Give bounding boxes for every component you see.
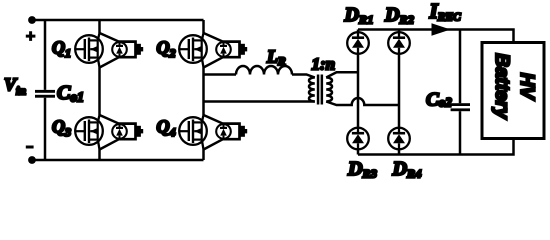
capacitor Co2: [451, 103, 470, 106]
svg-text:Q1: Q1: [52, 37, 71, 60]
diode DR3: [347, 128, 369, 150]
wire: Co2 branch bottom: [459, 111, 462, 154]
current arrow IREC: [432, 23, 451, 35]
wire: left bridge leg middle: [98, 68, 101, 116]
wire: bridge node to LR: [204, 73, 237, 76]
wire: right bridge leg upper: [202, 20, 205, 33]
wire: Co1 branch bottom: [44, 98, 47, 160]
svg-text:HV: HV: [516, 73, 537, 101]
diode DR1: [347, 32, 369, 54]
transistor Q2: [179, 33, 247, 68]
transistor Q3: [75, 115, 143, 150]
transistor Q1: [75, 33, 143, 68]
svg-text:Co1: Co1: [57, 82, 84, 105]
svg-text:Q4: Q4: [157, 117, 176, 140]
label +: [26, 31, 36, 41]
wire: Co2 branch top: [459, 30, 462, 104]
svg-text:DR4: DR4: [392, 158, 422, 181]
capacitor Co1: [35, 90, 55, 93]
inductor LR: [236, 66, 292, 75]
label HV Battery: [491, 53, 537, 120]
wire: secondary bottom to rectifier right leg with hop: [326, 98, 399, 105]
node: input + terminal: [28, 16, 36, 24]
svg-text:IREC: IREC: [429, 0, 462, 24]
node: input - terminal: [28, 156, 36, 164]
svg-text:Q2: Q2: [157, 37, 176, 60]
battery box: [482, 43, 544, 139]
wire: bottom input rail: [32, 159, 204, 162]
diode DR4: [388, 128, 410, 150]
svg-text:Battery: Battery: [491, 53, 512, 120]
svg-text:Q3: Q3: [52, 117, 71, 140]
svg-text:DR1: DR1: [344, 4, 374, 27]
svg-text:1:n: 1:n: [312, 55, 336, 74]
transformer T1 primary winding: [309, 78, 315, 102]
wire: right bridge leg lower: [202, 150, 205, 161]
wire: bridge lower node to primary bottom: [204, 100, 315, 103]
transistor Q4: [179, 115, 247, 150]
wire: rectifier top rail to battery: [358, 30, 514, 43]
wire: left bridge leg lower: [98, 150, 101, 161]
wire: LR to transformer primary: [292, 75, 315, 78]
svg-text:DR3: DR3: [347, 158, 377, 181]
wire: secondary top to rectifier left leg: [326, 72, 358, 77]
svg-text:DR2: DR2: [384, 4, 414, 27]
svg-text:Vin: Vin: [4, 75, 26, 98]
wire: rectifier right leg: [398, 30, 401, 155]
wire: rectifier left leg: [357, 30, 360, 155]
svg-text:Co2: Co2: [426, 90, 452, 111]
label -: [26, 146, 34, 149]
wire: left bridge leg upper: [98, 20, 101, 33]
diode DR2: [388, 32, 410, 54]
wire: right bridge leg middle: [202, 68, 205, 116]
wire: Co1 branch top: [44, 20, 47, 90]
wire: top input rail: [32, 19, 204, 22]
transformer T1 secondary winding: [326, 78, 332, 102]
transformer T1 core: [317, 75, 320, 105]
wire: rectifier bottom rail to battery: [358, 139, 514, 155]
svg-text:LR: LR: [266, 47, 286, 69]
